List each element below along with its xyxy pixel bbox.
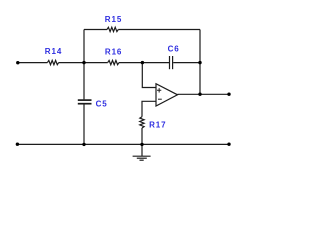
resistor R15 [107, 27, 118, 31]
node: input terminal [16, 61, 19, 64]
wire: input to R14 [18, 62, 48, 64]
svg-text:C6: C6 [168, 44, 180, 53]
capacitor C6 right plate [172, 56, 174, 69]
ground bar 3 [140, 159, 144, 161]
wire: op-amp minus input left and down to R17 [142, 101, 156, 116]
op-amp minus sign [158, 98, 162, 100]
wire: node A up to top row [83, 30, 85, 63]
wire: top row right segment [118, 29, 200, 31]
wire: R16 to node B / C6 left plate [119, 62, 169, 64]
svg-text:C5: C5 [96, 99, 108, 108]
svg-text:R16: R16 [105, 47, 122, 56]
capacitor C5 top plate [78, 99, 92, 101]
node: bottom-left terminal [16, 143, 19, 146]
resistor R16 [108, 60, 119, 64]
svg-text:R14: R14 [45, 47, 62, 56]
wire: right vertical from top row to output node [199, 30, 201, 95]
wire: R14 to node A [59, 62, 84, 64]
wire: node A vertical down to C5 top plate [83, 63, 85, 100]
node A junction [82, 61, 85, 64]
capacitor C6 left plate [169, 56, 171, 69]
wire: node A to R16 [84, 62, 108, 64]
wire: R17 to bottom rail [141, 128, 143, 144]
node: bottom-right terminal [227, 143, 230, 146]
wire: C6 right plate to right vertical [173, 62, 200, 64]
wire: C5 bottom plate to bottom rail [83, 104, 85, 144]
resistor R14 [47, 60, 58, 64]
svg-text:R15: R15 [105, 15, 122, 24]
svg-text:R17: R17 [149, 120, 166, 129]
resistor R17 [140, 117, 144, 128]
node: output terminal [227, 93, 230, 96]
op-amp plus sign [157, 88, 161, 92]
ground bar 2 [137, 157, 147, 159]
node: ground junction [140, 143, 143, 146]
node: output junction [198, 93, 201, 96]
ground stem [141, 144, 143, 156]
node: C6 right junction [198, 61, 201, 64]
op-amp U1 triangle [156, 84, 178, 106]
wire: bottom rail [18, 143, 229, 145]
node B junction [141, 61, 144, 64]
wire: op-amp output to right terminal [178, 93, 230, 95]
wire: node B down to op-amp plus input [142, 63, 156, 88]
ground bar 1 [133, 155, 151, 157]
node: C5 bottom junction [82, 143, 85, 146]
wire: top row left segment [84, 29, 107, 31]
capacitor C5 bottom plate [78, 103, 92, 105]
